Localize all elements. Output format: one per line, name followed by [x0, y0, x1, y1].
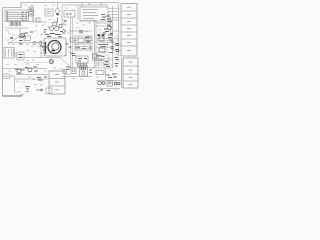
component column marks: [19, 37, 23, 44]
wire: [15, 55, 18, 57]
U6 marks: [78, 59, 87, 62]
wire mesh right: [96, 37, 113, 55]
wire: [33, 21, 47, 23]
DS1 base blob: [56, 14, 59, 15]
IF can box T1: [24, 36, 31, 41]
wire: [15, 91, 22, 93]
transistor Q1: [20, 33, 24, 37]
parts right of K3: [89, 70, 92, 73]
K3 core hatches: [81, 67, 85, 70]
box cluster mid-right: [92, 54, 102, 60]
wire below T2: [24, 57, 60, 59]
wire: [10, 75, 15, 77]
relay K1 box: [29, 7, 34, 16]
wire to column: [96, 38, 119, 40]
CN-A left rail: [118, 4, 120, 57]
J1 contact rail: [27, 11, 29, 21]
parts on wire: [104, 65, 110, 67]
wire: [14, 76, 16, 92]
trimmer parts: [44, 30, 47, 33]
wire under relays: [62, 76, 92, 78]
dark marks lower: [97, 55, 105, 58]
Q4 parts: [25, 67, 38, 71]
reference column CN-A: [119, 4, 137, 57]
connector board U6: [76, 56, 88, 63]
wire: [15, 53, 18, 55]
lamp DS1: [55, 9, 60, 14]
box U5: [96, 71, 104, 75]
terminal box TB2: [46, 88, 52, 94]
J1 switch contacts: [21, 12, 28, 20]
ground symbol GND1: [25, 87, 30, 90]
resistor R2 marks: [25, 32, 34, 33]
transformer T3 box: [107, 81, 113, 86]
capacitor C12 box: [63, 70, 67, 74]
CN-C dividers: [49, 78, 65, 80]
L3 hatches: [50, 60, 54, 64]
Q1 leads: [20, 33, 26, 39]
vertical bus pair: [70, 18, 72, 69]
resistor R11 marks: [37, 77, 47, 80]
S1 contacts: [66, 13, 72, 15]
wire: [96, 62, 110, 64]
wire bus below J1: [5, 27, 28, 29]
NOTE1 text columns: [6, 49, 14, 57]
pointer line: [8, 36, 20, 45]
wire: [23, 74, 48, 76]
K3 coil circle: [82, 71, 85, 74]
dark component blobs: [98, 34, 105, 36]
horizontal long wire: [3, 68, 48, 70]
T2 inner blob: [52, 50, 56, 52]
frame bottom border: [3, 95, 23, 97]
reference column CN-B: [121, 58, 138, 88]
lower-right wire mesh: [96, 56, 113, 68]
legend box NOTE1: [4, 48, 15, 59]
U1 part marks: [50, 21, 67, 35]
ladder rung: [96, 22, 111, 24]
right-mid wiring grid: [74, 36, 93, 50]
stub wire to column: [113, 30, 119, 32]
fuse F1 circle: [118, 82, 120, 84]
wire: [105, 68, 107, 80]
wire: [15, 78, 49, 80]
tiny label: [20, 94, 24, 96]
video board box U2: [78, 38, 84, 43]
wire diagonal: [60, 58, 70, 67]
CN-B cell dividers: [123, 65, 138, 67]
relay K3 box: [80, 66, 88, 76]
box S2 (small labeled box): [45, 9, 53, 16]
wire to column: [113, 44, 122, 46]
vertical bus pair 2: [93, 20, 95, 68]
deflection coil L3: [50, 60, 54, 64]
CN-A cell dividers: [121, 10, 137, 12]
T2 core bold circle: [48, 41, 61, 54]
wire under U6: [69, 67, 94, 69]
wire: [96, 25, 112, 27]
reference column CN-C: [49, 71, 65, 94]
wire: [19, 28, 21, 33]
mesh part marks: [100, 60, 108, 62]
IF can box T4: [86, 37, 91, 41]
diode D3 cluster: [103, 25, 113, 34]
column-side resistor R21: [115, 44, 119, 46]
coil L1: [33, 41, 36, 44]
TB1 stub wires: [77, 5, 79, 20]
power cluster parts: [106, 74, 117, 78]
arrow head: [41, 89, 44, 91]
resistor R1 label blob: [10, 37, 13, 39]
fine wire mesh: [74, 36, 93, 50]
TB1 stub wires to column: [108, 9, 119, 18]
junction parts: [66, 67, 70, 70]
P2 text: [5, 75, 9, 77]
IC U4 cluster: [108, 35, 113, 40]
wire: [96, 80, 121, 82]
oscillator cluster U1: [48, 18, 66, 33]
wire left of S1: [61, 6, 63, 24]
CN-B left rail: [120, 58, 122, 88]
filter box FL1: [17, 52, 24, 60]
wire under power cluster: [96, 88, 120, 90]
TB1 text rows: [83, 10, 98, 19]
T2 top components cluster: [45, 33, 65, 37]
column-side parts D22: [115, 64, 119, 67]
TB1 right contact cluster: [101, 15, 112, 22]
capacitor C31 circle: [102, 82, 105, 85]
rectifier BR1 circle: [98, 81, 102, 85]
label text: [25, 91, 29, 93]
part marks cluster: [76, 38, 92, 49]
arrow wire: [36, 89, 43, 91]
audio cluster U3: [98, 37, 108, 52]
wire: [44, 43, 46, 52]
S2 text: [47, 12, 52, 14]
wire: [40, 40, 42, 58]
faint return wire: [24, 62, 49, 64]
parts near bus: [66, 44, 72, 47]
FL1 marks: [19, 55, 23, 58]
transistor Q3 cluster: [15, 69, 25, 74]
wire mid bus: [8, 42, 47, 44]
K1 internal marks: [30, 9, 33, 14]
wire: [92, 67, 113, 69]
cluster parts left of bus2: [71, 54, 76, 56]
connector P1 pin comb: [10, 22, 20, 27]
column-side diode D21: [115, 58, 119, 60]
wire bus to column: [108, 19, 119, 21]
CN-B cell labels: [129, 62, 133, 85]
small box U7: [70, 38, 74, 42]
J1 left pin circles: [6, 12, 7, 21]
DS1 wire to top: [57, 3, 59, 9]
switch box S1: [64, 11, 75, 18]
transistor Q4: [28, 68, 32, 72]
ladder rail: [110, 20, 112, 35]
part mark: [40, 45, 43, 47]
page frame outline: [3, 3, 119, 97]
column-side capacitor C21: [115, 50, 119, 52]
coil L2: [39, 41, 42, 44]
terminal board TB1: [80, 7, 108, 21]
CN-A cell labels: [127, 7, 131, 50]
vertical wire: [112, 6, 114, 68]
wire above TB1: [62, 4, 108, 6]
T3 core marks: [108, 82, 112, 84]
U6 pin comb: [78, 63, 87, 67]
resistor R5 marks: [42, 47, 47, 50]
T2 left limb: [45, 42, 47, 54]
J1 row contacts: [7, 12, 27, 20]
AC plug box P2: [3, 74, 10, 79]
T2 inner winding: [52, 43, 59, 50]
transistor Q5: [108, 26, 112, 30]
capacitor C1 box: [36, 18, 40, 22]
flyback transformer T2 enclosure: [44, 38, 66, 56]
parts under BR1: [100, 89, 110, 92]
connector block J1 (tuner strip): [5, 10, 33, 22]
wire: [69, 30, 92, 32]
wire to column: [113, 50, 122, 52]
wire segment top-mid: [33, 17, 35, 22]
pilot circles: [114, 82, 117, 85]
capacitor C7 marks: [80, 30, 82, 34]
CN-C labels: [55, 75, 59, 90]
reference designator labels: [6, 4, 119, 92]
K2 coil circle: [72, 70, 74, 72]
relay K2 box: [71, 68, 76, 74]
component dash column: [110, 42, 115, 53]
